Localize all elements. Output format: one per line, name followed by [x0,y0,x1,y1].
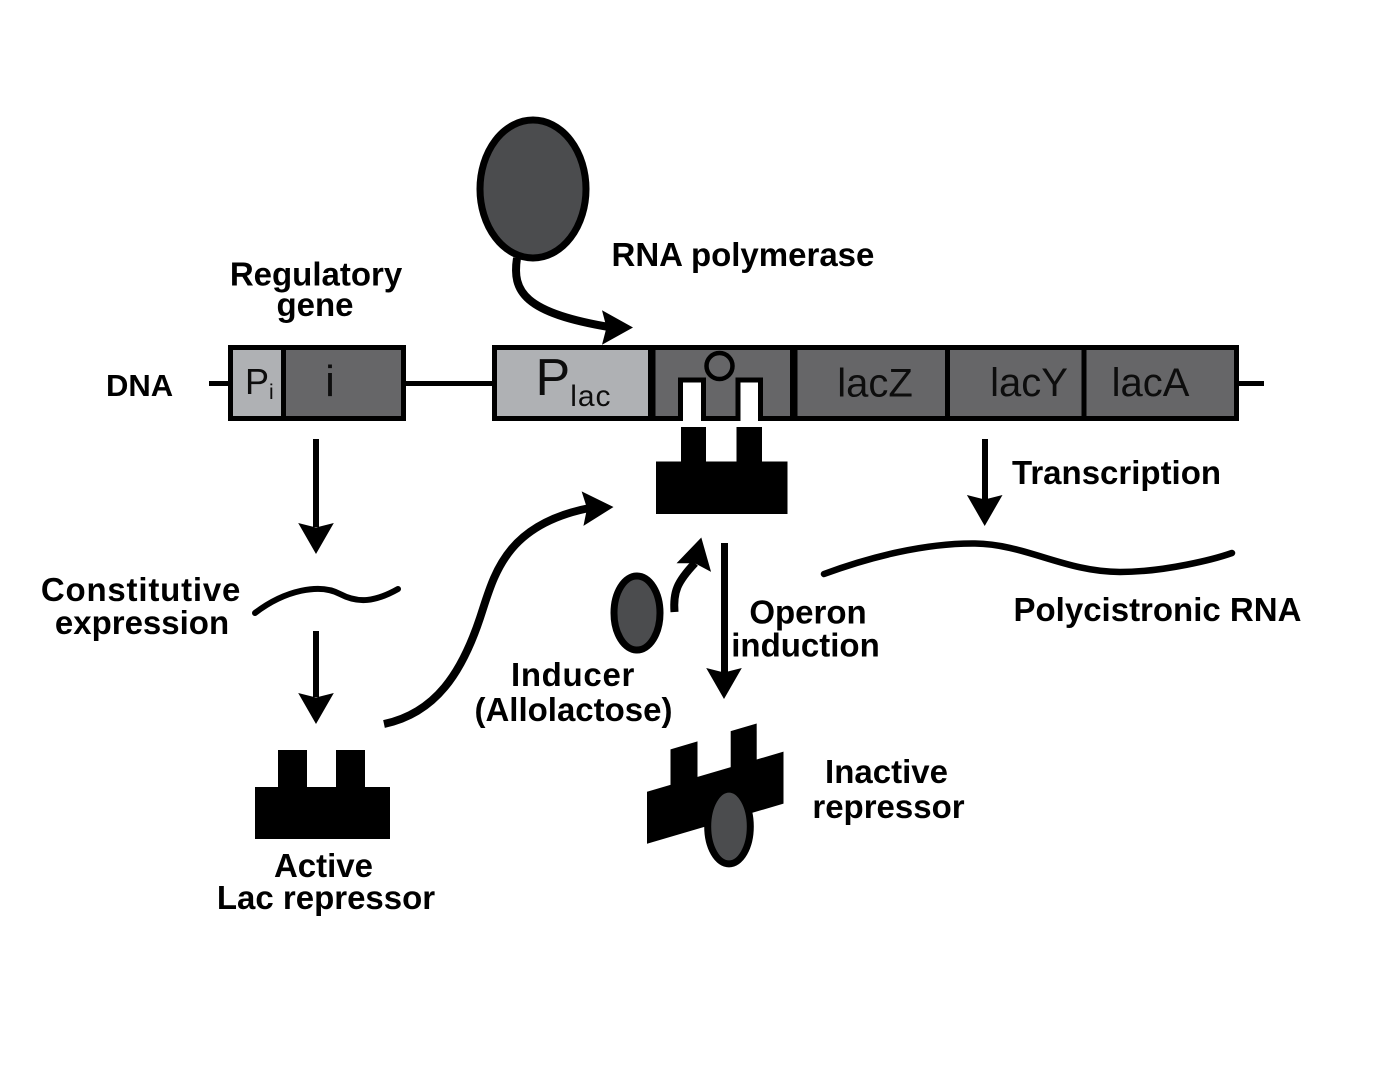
svg-text:lacA: lacA [1112,361,1190,405]
svg-text:gene: gene [276,286,353,323]
inducer bound to inactive repressor [708,789,751,864]
polycistronic RNA wave [824,543,1232,574]
arrow: RNA polymerase to Plac [516,258,612,328]
box Plac promoter [495,348,651,419]
arrow: operon induction (down) [706,543,742,699]
svg-text:Inactive: Inactive [825,753,948,790]
svg-text:Operon: Operon [749,594,866,631]
operator slot right [738,380,761,423]
arrow: transcription (down) [967,439,1003,526]
svg-text:Inducer: Inducer [511,656,635,693]
arrow: active repressor to operator (S-curve) [384,508,592,725]
svg-text:lacY: lacY [990,361,1068,405]
box lacY [948,348,1085,419]
box i regulatory gene [284,348,404,419]
mRNA squiggle (constitutive) [255,589,398,613]
repressor bound to operator [656,427,788,514]
svg-text:expression: expression [55,604,229,641]
svg-text:Constitutive: Constitutive [41,571,241,608]
inducer ellipse [614,576,660,650]
wire: DNA left stub [209,381,231,386]
svg-text:induction: induction [731,627,879,664]
arrow: i gene to mRNA (down) [298,439,334,554]
box lacZ [795,348,948,419]
box lacA [1084,348,1237,419]
svg-text:lacZ: lacZ [837,362,913,406]
svg-text:DNA: DNA [106,368,173,403]
box operator [653,348,793,419]
operator slot left [681,380,704,423]
active Lac repressor [255,750,390,839]
inactive repressor (skewed) [647,716,784,844]
svg-text:RNA polymerase: RNA polymerase [612,236,875,273]
arrow: mRNA to active repressor (down) [298,631,334,724]
svg-text:Transcription: Transcription [1012,454,1221,491]
wire: DNA segment between i and Plac [403,381,495,386]
RNA polymerase ellipse [480,120,586,258]
arrow: inducer to repressor (small curve up) [674,563,695,612]
svg-text:repressor: repressor [812,788,964,825]
box Pi promoter [231,348,284,419]
node: operator circle [707,353,733,379]
svg-text:i: i [325,357,335,406]
svg-text:(Allolactose): (Allolactose) [474,691,672,728]
svg-text:Polycistronic RNA: Polycistronic RNA [1014,591,1302,628]
svg-text:Lac repressor: Lac repressor [217,879,435,916]
wire: DNA right stub [1234,381,1264,386]
